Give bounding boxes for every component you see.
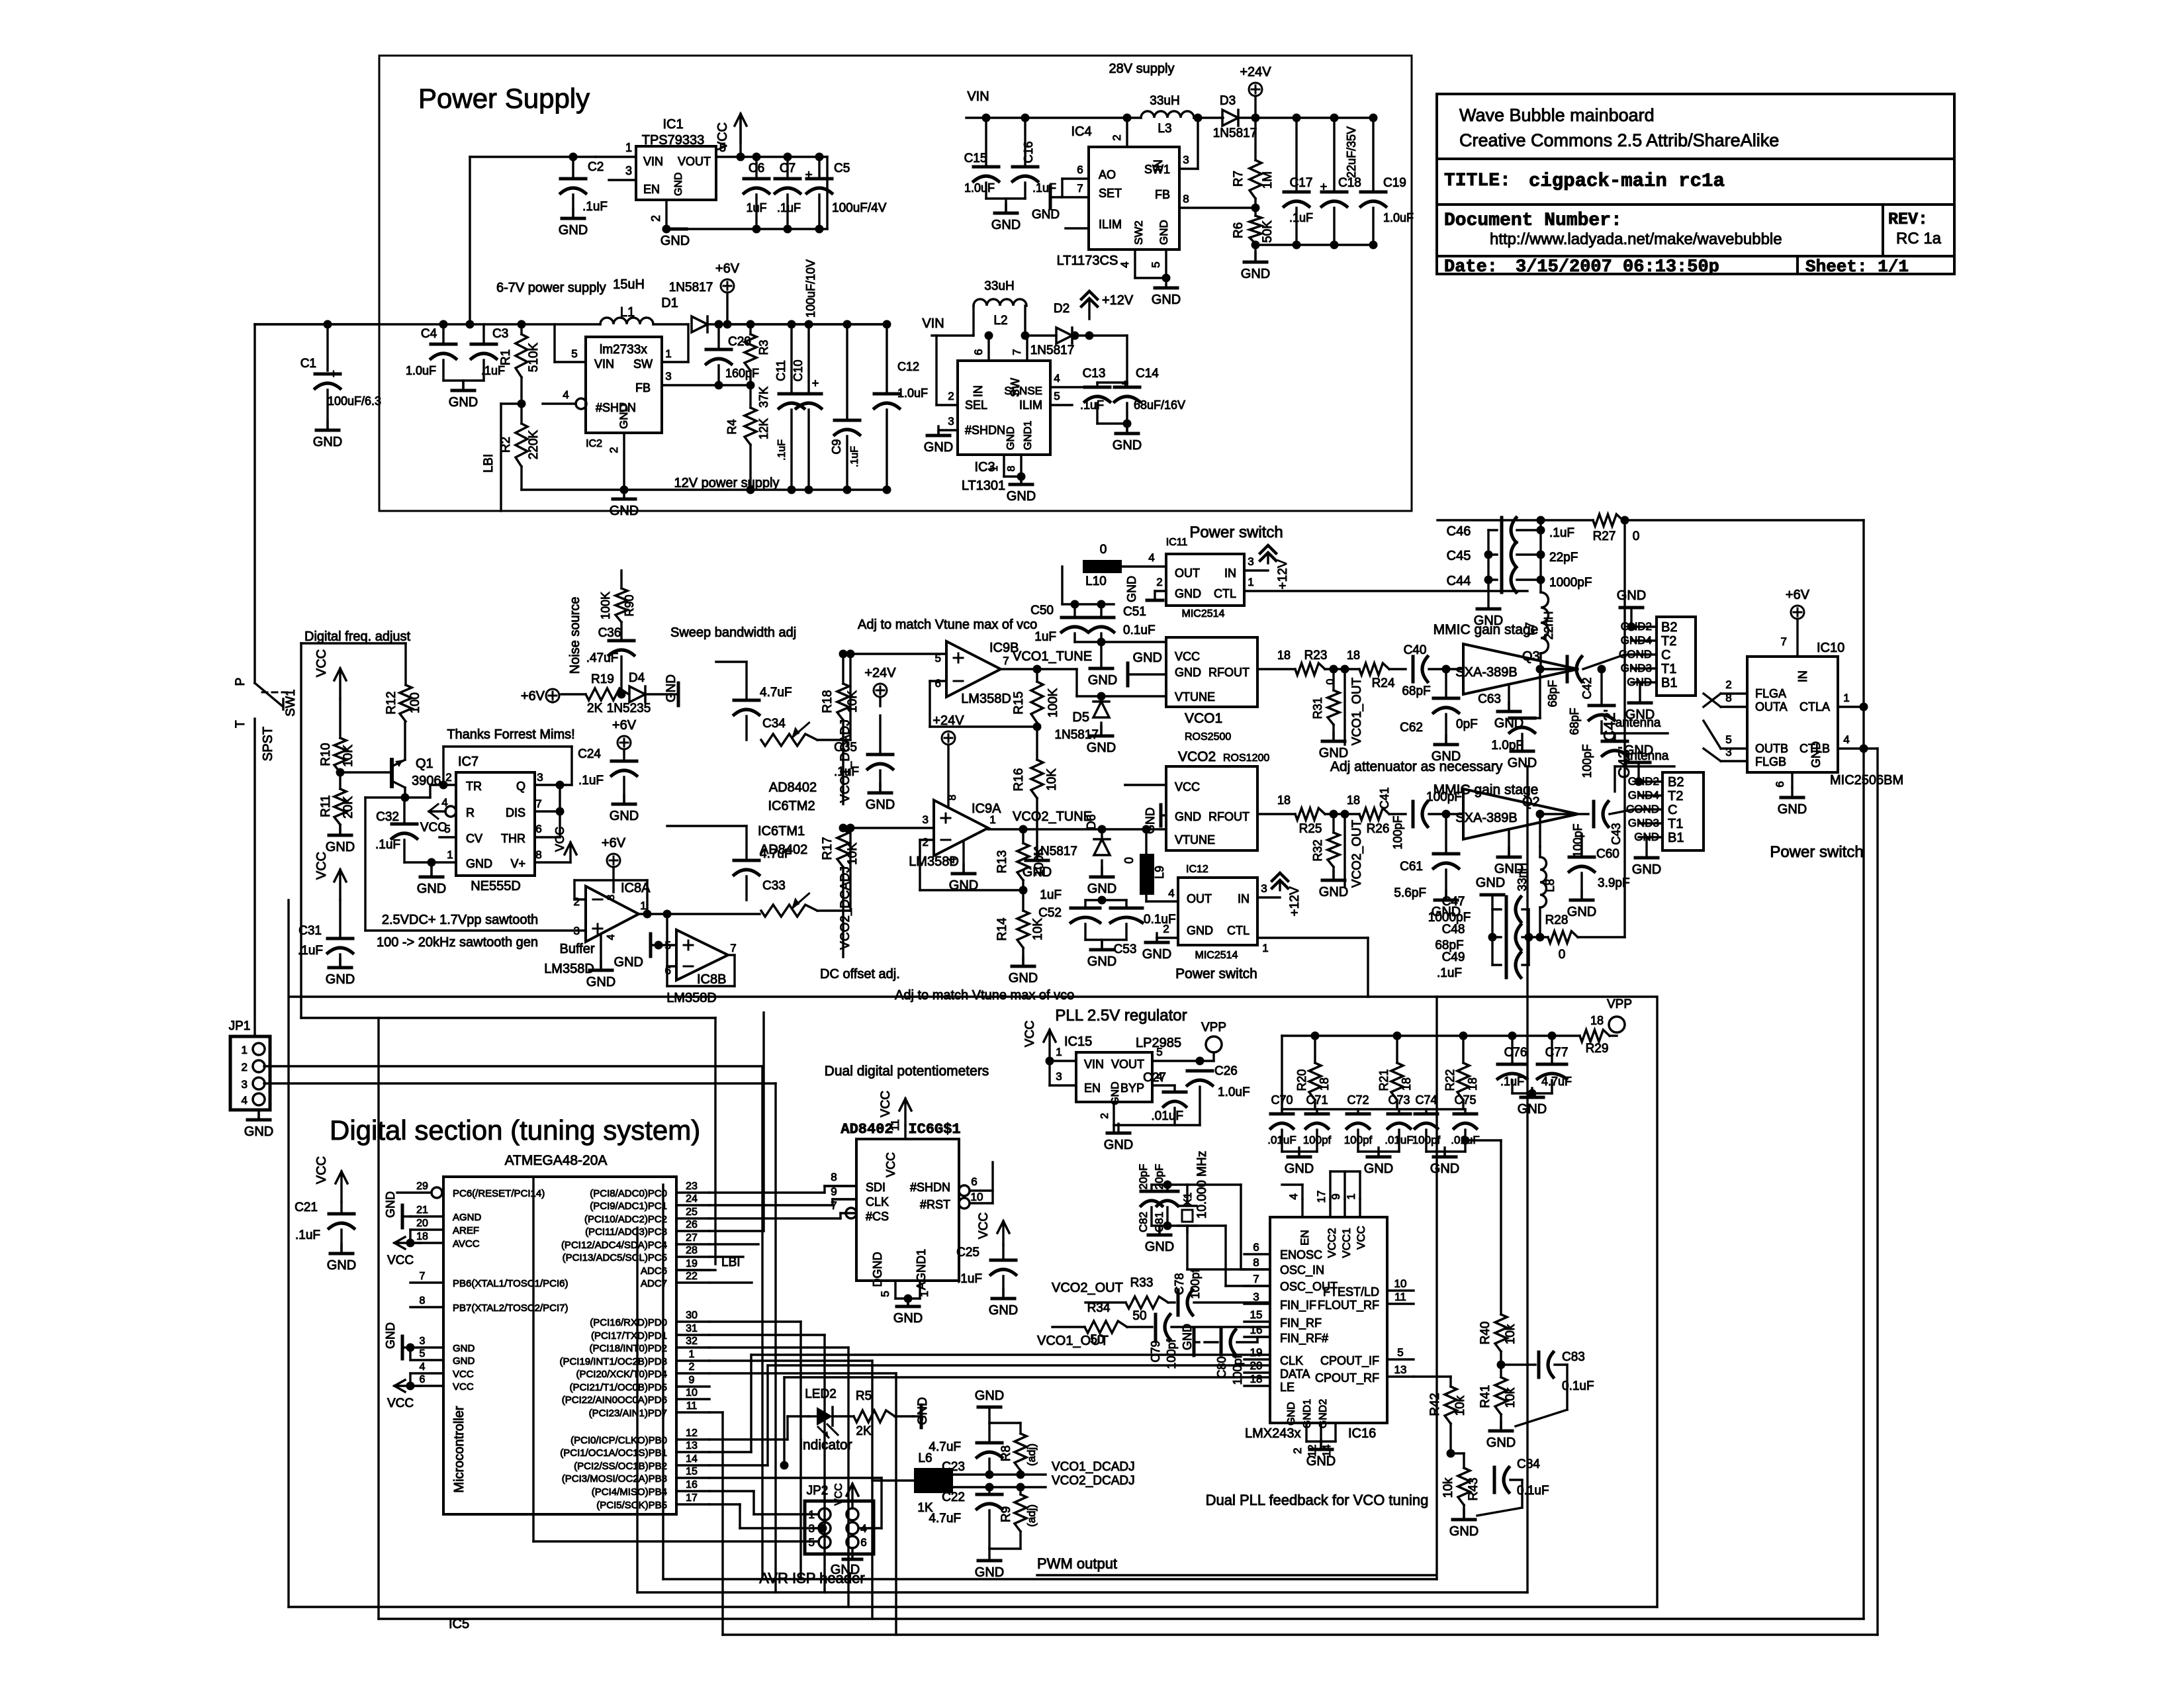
svg-text:GND: GND bbox=[1088, 673, 1117, 688]
svg-text:OUTB: OUTB bbox=[1755, 742, 1788, 755]
svg-text:1N5235: 1N5235 bbox=[607, 702, 651, 715]
svg-text:Microcontroller: Microcontroller bbox=[452, 1406, 467, 1492]
svg-text:2K: 2K bbox=[587, 702, 603, 715]
svg-text:B2: B2 bbox=[1661, 620, 1677, 635]
svg-text:R42: R42 bbox=[1428, 1393, 1442, 1416]
svg-text:5: 5 bbox=[1156, 1046, 1162, 1058]
svg-text:18: 18 bbox=[1277, 794, 1291, 807]
svg-text:4: 4 bbox=[1843, 733, 1849, 746]
svg-text:22: 22 bbox=[686, 1271, 698, 1282]
svg-text:(PCI8/ADC0)PC0: (PCI8/ADC0)PC0 bbox=[590, 1188, 667, 1199]
svg-text:FIN_RF: FIN_RF bbox=[1280, 1316, 1322, 1330]
svg-text:18: 18 bbox=[1400, 1077, 1413, 1091]
svg-text:R90: R90 bbox=[623, 594, 636, 616]
svg-text:IC9A: IC9A bbox=[972, 801, 1001, 816]
svg-text:GND: GND bbox=[1009, 971, 1038, 985]
svg-text:IC1: IC1 bbox=[662, 117, 683, 132]
svg-text:GND: GND bbox=[989, 1303, 1018, 1318]
svg-text:(PCI4/MISO)PB4: (PCI4/MISO)PB4 bbox=[592, 1486, 667, 1498]
svg-text:VCO1_OUT: VCO1_OUT bbox=[1350, 677, 1364, 745]
svg-text:+24V: +24V bbox=[1240, 65, 1271, 79]
svg-text:MIC2514: MIC2514 bbox=[1182, 608, 1225, 619]
svg-text:220K: 220K bbox=[527, 430, 541, 459]
svg-text:C27: C27 bbox=[1143, 1071, 1166, 1085]
svg-text:13: 13 bbox=[686, 1440, 698, 1451]
svg-text:IC6TM2: IC6TM2 bbox=[768, 799, 815, 813]
svg-text:1.0uF: 1.0uF bbox=[897, 387, 928, 400]
svg-text:Thanks Forrest Mims!: Thanks Forrest Mims! bbox=[447, 727, 574, 742]
svg-text:GND: GND bbox=[1778, 802, 1807, 817]
svg-text:GND: GND bbox=[1624, 743, 1653, 758]
svg-text:DC offset adj.: DC offset adj. bbox=[820, 967, 900, 982]
svg-text:2: 2 bbox=[242, 1061, 248, 1074]
svg-text:cigpack-main rc1a: cigpack-main rc1a bbox=[1529, 170, 1725, 192]
svg-text:BYP: BYP bbox=[1120, 1081, 1144, 1095]
svg-text:2: 2 bbox=[608, 447, 620, 453]
svg-text:4.7uF: 4.7uF bbox=[1541, 1075, 1572, 1088]
svg-text:D3: D3 bbox=[1220, 94, 1236, 108]
svg-text:(PCI11/ADC3)PC3: (PCI11/ADC3)PC3 bbox=[585, 1226, 667, 1238]
svg-text:1000pF: 1000pF bbox=[1549, 576, 1592, 590]
svg-text:37K: 37K bbox=[757, 387, 770, 408]
svg-text:R5: R5 bbox=[856, 1389, 872, 1403]
svg-text:GND: GND bbox=[614, 955, 643, 970]
svg-text:8: 8 bbox=[1725, 692, 1731, 704]
svg-text:C35: C35 bbox=[834, 741, 857, 754]
svg-text:SPST: SPST bbox=[261, 727, 275, 761]
svg-text:28: 28 bbox=[686, 1245, 698, 1256]
svg-text:R8: R8 bbox=[999, 1445, 1013, 1461]
svg-text:IC5: IC5 bbox=[449, 1617, 469, 1631]
svg-text:1uF: 1uF bbox=[746, 201, 766, 214]
svg-text:GND: GND bbox=[1007, 489, 1036, 504]
svg-text:6: 6 bbox=[971, 1175, 977, 1188]
svg-text:1: 1 bbox=[1248, 576, 1253, 588]
svg-text:4.7uF: 4.7uF bbox=[929, 1440, 961, 1454]
svg-text:1.0uF: 1.0uF bbox=[964, 181, 995, 195]
svg-text:7: 7 bbox=[1003, 655, 1009, 667]
svg-text:D2: D2 bbox=[1054, 302, 1069, 316]
svg-text:16: 16 bbox=[1250, 1324, 1263, 1336]
svg-text:ROS2500: ROS2500 bbox=[1185, 731, 1231, 743]
svg-text:6: 6 bbox=[1077, 163, 1083, 176]
svg-text:R11: R11 bbox=[319, 795, 333, 817]
svg-text:GND: GND bbox=[1286, 1402, 1297, 1426]
svg-text:C74: C74 bbox=[1415, 1093, 1437, 1107]
svg-text:C34: C34 bbox=[762, 717, 786, 731]
svg-text:SENSE: SENSE bbox=[1004, 385, 1042, 397]
svg-text:C52: C52 bbox=[1038, 906, 1062, 920]
svg-text:+6V: +6V bbox=[602, 836, 626, 850]
svg-text:C78: C78 bbox=[1173, 1273, 1186, 1295]
svg-text:+6V: +6V bbox=[521, 689, 545, 704]
svg-text:1: 1 bbox=[1345, 1193, 1357, 1199]
svg-text:0: 0 bbox=[1633, 529, 1640, 543]
svg-text:0.1uF: 0.1uF bbox=[1144, 913, 1176, 927]
svg-text:VCC: VCC bbox=[1355, 1226, 1367, 1250]
svg-text:+: + bbox=[812, 377, 819, 390]
svg-text:68uF/16V: 68uF/16V bbox=[1134, 398, 1185, 412]
svg-text:C23: C23 bbox=[942, 1460, 965, 1474]
svg-text:18: 18 bbox=[416, 1231, 428, 1242]
svg-text:4: 4 bbox=[242, 1094, 248, 1107]
svg-text:GND: GND bbox=[975, 1389, 1004, 1403]
svg-text:TR: TR bbox=[466, 780, 482, 793]
svg-text:ADC7: ADC7 bbox=[641, 1278, 667, 1289]
svg-text:.1uF: .1uF bbox=[578, 774, 604, 788]
svg-text:PLL 2.5V regulator: PLL 2.5V regulator bbox=[1055, 1007, 1187, 1025]
svg-text:IN: IN bbox=[1796, 670, 1809, 682]
svg-text:GND: GND bbox=[384, 1191, 397, 1218]
svg-text:GND: GND bbox=[1319, 746, 1348, 760]
svg-text:27: 27 bbox=[686, 1232, 698, 1244]
svg-text:R1: R1 bbox=[499, 349, 513, 365]
svg-text:IC16: IC16 bbox=[1348, 1426, 1376, 1441]
svg-text:4: 4 bbox=[1054, 372, 1060, 385]
svg-text:9: 9 bbox=[689, 1375, 695, 1386]
svg-text:(adj): (adj) bbox=[1025, 1443, 1038, 1466]
svg-text:GND: GND bbox=[1567, 905, 1596, 919]
svg-text:2: 2 bbox=[445, 771, 451, 784]
svg-text:3: 3 bbox=[537, 771, 543, 784]
svg-text:(PCI5/SCK)PB5: (PCI5/SCK)PB5 bbox=[596, 1500, 667, 1511]
svg-text:SXA-389B: SXA-389B bbox=[1455, 665, 1517, 680]
svg-text:MIC2514: MIC2514 bbox=[1195, 950, 1238, 961]
svg-text:22uF/35V: 22uF/35V bbox=[1345, 126, 1358, 178]
svg-text:1: 1 bbox=[809, 1508, 815, 1521]
svg-text:D5: D5 bbox=[1072, 710, 1089, 725]
svg-text:+12V: +12V bbox=[1288, 886, 1302, 916]
svg-text:GND: GND bbox=[1158, 220, 1170, 245]
svg-text:GND: GND bbox=[1087, 882, 1116, 896]
svg-text:VCC: VCC bbox=[977, 1212, 991, 1239]
svg-text:GND: GND bbox=[1110, 1081, 1121, 1105]
svg-text:.1uF: .1uF bbox=[776, 439, 788, 461]
svg-text:VCC: VCC bbox=[314, 1156, 329, 1184]
svg-text:LT1301: LT1301 bbox=[962, 479, 1005, 493]
svg-text:RFOUT: RFOUT bbox=[1208, 666, 1250, 679]
svg-text:GND: GND bbox=[1125, 576, 1138, 602]
svg-text:L8: L8 bbox=[1543, 879, 1557, 892]
svg-text:GND: GND bbox=[664, 674, 678, 702]
svg-text:C83: C83 bbox=[1562, 1350, 1585, 1364]
svg-text:160pF: 160pF bbox=[725, 367, 759, 380]
svg-text:GND: GND bbox=[1152, 293, 1181, 307]
svg-text:CTLA: CTLA bbox=[1799, 700, 1830, 713]
svg-text:CLK: CLK bbox=[866, 1195, 889, 1209]
svg-text:4: 4 bbox=[947, 857, 958, 863]
svg-text:Adj to match Vtune max of vco: Adj to match Vtune max of vco bbox=[858, 617, 1037, 632]
svg-text:Q1: Q1 bbox=[416, 756, 433, 771]
svg-text:PB7(XTAL2/TOSC2/PCI7): PB7(XTAL2/TOSC2/PCI7) bbox=[453, 1303, 569, 1314]
svg-text:D6: D6 bbox=[1085, 814, 1098, 829]
svg-text:PB6(XTAL1/TOSC1/PCI6): PB6(XTAL1/TOSC1/PCI6) bbox=[453, 1278, 569, 1289]
svg-text:VCC: VCC bbox=[453, 1369, 474, 1380]
svg-text:23: 23 bbox=[686, 1181, 698, 1192]
svg-text:R7: R7 bbox=[1232, 171, 1246, 187]
svg-text:FLOUT_RF: FLOUT_RF bbox=[1318, 1299, 1379, 1312]
svg-text:R25: R25 bbox=[1299, 822, 1322, 836]
svg-text:+12V: +12V bbox=[1276, 559, 1290, 589]
svg-text:IN: IN bbox=[1238, 892, 1250, 905]
svg-text:R29: R29 bbox=[1586, 1042, 1609, 1056]
svg-text:R41: R41 bbox=[1479, 1385, 1492, 1408]
svg-text:C80: C80 bbox=[1215, 1356, 1228, 1378]
svg-text:C79: C79 bbox=[1149, 1340, 1162, 1362]
svg-text:1: 1 bbox=[242, 1044, 248, 1056]
svg-text:VCC: VCC bbox=[1175, 780, 1200, 794]
svg-text:C31: C31 bbox=[298, 924, 322, 938]
svg-text:T: T bbox=[234, 720, 248, 728]
svg-text:15: 15 bbox=[686, 1466, 698, 1477]
svg-text:AD8402: AD8402 bbox=[841, 1121, 893, 1138]
svg-text:5: 5 bbox=[1054, 390, 1060, 402]
svg-text:(PCI12/ADC4/SDA)PC4: (PCI12/ADC4/SDA)PC4 bbox=[561, 1240, 667, 1251]
svg-text:R19: R19 bbox=[591, 672, 614, 686]
svg-text:L10: L10 bbox=[1085, 574, 1107, 588]
svg-text:(PCI22/AIN0OC0A)PD6: (PCI22/AIN0OC0A)PD6 bbox=[562, 1394, 667, 1406]
svg-text:GND: GND bbox=[1486, 1436, 1516, 1450]
svg-text:GND: GND bbox=[1449, 1524, 1479, 1539]
svg-text:V+: V+ bbox=[510, 857, 525, 870]
svg-text:C62: C62 bbox=[1400, 721, 1423, 735]
svg-text:C53: C53 bbox=[1114, 942, 1137, 956]
svg-text:9: 9 bbox=[1330, 1193, 1342, 1199]
svg-text:GND: GND bbox=[1133, 651, 1162, 665]
svg-text:GND: GND bbox=[1285, 1162, 1314, 1176]
svg-text:25: 25 bbox=[686, 1207, 698, 1218]
svg-text:100pf: 100pf bbox=[1165, 1338, 1178, 1369]
svg-text:20K: 20K bbox=[341, 796, 355, 819]
svg-text:4: 4 bbox=[1287, 1193, 1300, 1199]
svg-text:L7: L7 bbox=[1524, 622, 1537, 635]
svg-text:#CS: #CS bbox=[866, 1210, 889, 1223]
svg-text:R27: R27 bbox=[1593, 529, 1616, 543]
svg-text:L9: L9 bbox=[1153, 866, 1166, 879]
svg-text:Sweep bandwidth adj: Sweep bandwidth adj bbox=[670, 625, 796, 640]
svg-text:Power switch: Power switch bbox=[1770, 843, 1863, 861]
svg-text:18: 18 bbox=[1590, 1014, 1604, 1027]
svg-text:.1uF: .1uF bbox=[582, 200, 608, 214]
svg-text:68pF: 68pF bbox=[1402, 684, 1430, 698]
svg-text:C60: C60 bbox=[1596, 847, 1619, 861]
svg-text:DATA: DATA bbox=[1280, 1367, 1310, 1381]
svg-text:(PCI10/ADC2)PC2: (PCI10/ADC2)PC2 bbox=[584, 1214, 667, 1225]
svg-text:SW1: SW1 bbox=[284, 689, 298, 716]
svg-text:GND: GND bbox=[417, 882, 446, 896]
svg-text:100uF/4V: 100uF/4V bbox=[832, 201, 887, 215]
svg-text:(PCI3/MOSI/OC2A)PB3: (PCI3/MOSI/OC2A)PB3 bbox=[562, 1473, 667, 1485]
svg-text:OUT: OUT bbox=[1187, 892, 1212, 905]
svg-text:10K: 10K bbox=[341, 745, 355, 767]
svg-text:FIN_IF: FIN_IF bbox=[1280, 1299, 1316, 1312]
svg-text:NE555D: NE555D bbox=[471, 879, 521, 893]
svg-text:28V supply: 28V supply bbox=[1109, 62, 1175, 76]
svg-text:AVCC: AVCC bbox=[453, 1238, 480, 1250]
svg-text:R21: R21 bbox=[1377, 1069, 1390, 1091]
svg-text:C6: C6 bbox=[749, 161, 764, 175]
svg-text:T1: T1 bbox=[1668, 817, 1683, 831]
svg-text:C24: C24 bbox=[578, 747, 601, 761]
svg-text:OSC_IN: OSC_IN bbox=[1280, 1263, 1324, 1277]
svg-text:C12: C12 bbox=[897, 360, 919, 373]
svg-text:#SHDN: #SHDN bbox=[965, 424, 1005, 437]
svg-text:11: 11 bbox=[889, 1119, 901, 1131]
svg-text:LED2: LED2 bbox=[805, 1387, 837, 1401]
svg-text:LT1173CS: LT1173CS bbox=[1057, 253, 1118, 268]
svg-text:RC 1a: RC 1a bbox=[1896, 230, 1942, 248]
svg-text:GND: GND bbox=[1104, 1138, 1133, 1152]
svg-text:+24V: +24V bbox=[864, 666, 896, 680]
svg-text:5: 5 bbox=[571, 347, 577, 360]
svg-text:C3: C3 bbox=[492, 327, 508, 341]
svg-text:1.0uF: 1.0uF bbox=[1218, 1085, 1250, 1099]
svg-text:.47uF: .47uF bbox=[586, 651, 619, 665]
svg-text:+6V: +6V bbox=[715, 261, 740, 276]
svg-text:20: 20 bbox=[1250, 1359, 1263, 1372]
svg-text:RFOUT: RFOUT bbox=[1208, 810, 1250, 823]
svg-text:31: 31 bbox=[686, 1323, 698, 1334]
svg-text:R33: R33 bbox=[1130, 1276, 1154, 1290]
svg-text:100K: 100K bbox=[599, 592, 612, 619]
svg-text:VTUNE: VTUNE bbox=[1175, 833, 1215, 846]
svg-text:12K: 12K bbox=[757, 418, 770, 439]
svg-text:C7: C7 bbox=[780, 161, 796, 175]
svg-text:50: 50 bbox=[1132, 1309, 1146, 1323]
svg-text:1: 1 bbox=[918, 1291, 931, 1297]
svg-text:18: 18 bbox=[1250, 1373, 1263, 1385]
svg-text:.01uF: .01uF bbox=[1151, 1109, 1183, 1123]
svg-text:5.6pF: 5.6pF bbox=[1394, 886, 1426, 900]
svg-text:CTL: CTL bbox=[1214, 587, 1236, 600]
svg-text:VCO2: VCO2 bbox=[1178, 749, 1216, 764]
svg-text:C42: C42 bbox=[1580, 677, 1594, 699]
svg-text:T2: T2 bbox=[1661, 634, 1676, 649]
svg-text:1.0uF: 1.0uF bbox=[406, 364, 436, 377]
svg-text:3: 3 bbox=[574, 925, 580, 937]
svg-text:C36: C36 bbox=[598, 626, 621, 640]
svg-text:(PCI13/ADC5/SCL)PC5: (PCI13/ADC5/SCL)PC5 bbox=[563, 1252, 667, 1263]
svg-text:C49: C49 bbox=[1442, 950, 1465, 964]
svg-text:MIC2506BM: MIC2506BM bbox=[1830, 773, 1903, 788]
svg-text:7: 7 bbox=[730, 942, 736, 954]
svg-text:D1: D1 bbox=[661, 296, 678, 310]
svg-text:10k: 10k bbox=[1453, 1395, 1467, 1416]
svg-text:.1uF: .1uF bbox=[957, 1272, 982, 1286]
svg-text:GND: GND bbox=[244, 1124, 273, 1139]
svg-text:GND: GND bbox=[1432, 905, 1461, 919]
svg-text:7: 7 bbox=[1077, 182, 1083, 195]
svg-text:GND: GND bbox=[453, 1355, 475, 1367]
svg-text:10k: 10k bbox=[1504, 1324, 1518, 1344]
svg-text:.1uF: .1uF bbox=[849, 446, 860, 467]
svg-text:C51: C51 bbox=[1123, 605, 1146, 619]
svg-text:R22: R22 bbox=[1443, 1069, 1457, 1091]
svg-text:7: 7 bbox=[831, 1199, 837, 1212]
svg-text:R17: R17 bbox=[821, 837, 835, 860]
svg-text:5: 5 bbox=[1397, 1346, 1403, 1359]
svg-text:GND: GND bbox=[916, 1397, 930, 1425]
svg-text:.1uF: .1uF bbox=[298, 944, 323, 958]
svg-text:Dual digital potentiometers: Dual digital potentiometers bbox=[825, 1064, 989, 1079]
svg-text:GND: GND bbox=[1508, 756, 1537, 770]
svg-text:20: 20 bbox=[416, 1218, 428, 1229]
svg-text:3/15/2007 06:13:50p: 3/15/2007 06:13:50p bbox=[1516, 257, 1719, 277]
svg-text:R14: R14 bbox=[995, 917, 1009, 940]
svg-text:6: 6 bbox=[1774, 781, 1786, 787]
svg-text:GND3: GND3 bbox=[1628, 817, 1659, 829]
svg-text:PWM output: PWM output bbox=[1037, 1555, 1117, 1572]
svg-text:GND: GND bbox=[1032, 208, 1060, 222]
svg-text:L2: L2 bbox=[993, 314, 1007, 328]
svg-text:SEL: SEL bbox=[965, 398, 987, 412]
svg-text:R13: R13 bbox=[995, 850, 1009, 874]
svg-text:GND: GND bbox=[384, 1322, 397, 1349]
svg-text:VCO2_DCADJ: VCO2_DCADJ bbox=[839, 866, 852, 950]
svg-text:100pF: 100pF bbox=[1571, 823, 1584, 857]
svg-text:ILIM: ILIM bbox=[1099, 218, 1122, 231]
svg-text:GND: GND bbox=[1175, 587, 1201, 600]
svg-text:COND: COND bbox=[1626, 803, 1659, 815]
svg-text:R32: R32 bbox=[1311, 839, 1324, 861]
svg-text:GND: GND bbox=[660, 234, 690, 248]
svg-text:B2: B2 bbox=[1668, 775, 1684, 790]
svg-text:C61: C61 bbox=[1400, 860, 1423, 874]
svg-text:8: 8 bbox=[831, 1171, 837, 1183]
svg-text:(PCI18/INT0)PD2: (PCI18/INT0)PD2 bbox=[589, 1343, 667, 1354]
svg-text:Document Number:: Document Number: bbox=[1444, 210, 1622, 231]
svg-text:EN: EN bbox=[643, 183, 660, 196]
svg-text:IC10: IC10 bbox=[1817, 641, 1844, 655]
svg-text:R12: R12 bbox=[385, 692, 398, 715]
svg-text:1: 1 bbox=[447, 848, 453, 861]
svg-text:JP1: JP1 bbox=[229, 1019, 251, 1033]
svg-text:LM358D: LM358D bbox=[666, 991, 717, 1005]
svg-text:C5: C5 bbox=[834, 161, 850, 175]
svg-text:VCC: VCC bbox=[1175, 650, 1200, 663]
svg-text:SET: SET bbox=[1099, 187, 1122, 200]
svg-text:GND: GND bbox=[1494, 862, 1524, 876]
svg-text:L3: L3 bbox=[1158, 122, 1171, 136]
svg-text:3.9pF: 3.9pF bbox=[1598, 876, 1630, 890]
svg-text:.1uF: .1uF bbox=[1032, 181, 1056, 195]
svg-text:GND: GND bbox=[1809, 741, 1823, 768]
svg-text:IC4: IC4 bbox=[1071, 124, 1091, 139]
svg-text:24: 24 bbox=[686, 1193, 698, 1205]
svg-text:1: 1 bbox=[1843, 692, 1849, 704]
svg-text:C45: C45 bbox=[1447, 549, 1471, 563]
svg-text:Adj attenuator as necessary: Adj attenuator as necessary bbox=[1330, 759, 1503, 774]
svg-text:.1uF: .1uF bbox=[1289, 211, 1313, 224]
svg-text:GND: GND bbox=[313, 435, 342, 449]
svg-text:10k: 10k bbox=[1441, 1477, 1455, 1498]
svg-text:DIS: DIS bbox=[506, 806, 525, 819]
svg-text:GND: GND bbox=[1625, 708, 1655, 722]
svg-text:20pF: 20pF bbox=[1137, 1164, 1150, 1190]
svg-text:VOUT: VOUT bbox=[1111, 1058, 1144, 1071]
svg-text:C: C bbox=[1661, 648, 1670, 663]
svg-text:22pF: 22pF bbox=[1549, 551, 1578, 565]
svg-text:15: 15 bbox=[1250, 1308, 1263, 1321]
svg-text:4: 4 bbox=[606, 934, 617, 940]
svg-text:8: 8 bbox=[1253, 1256, 1259, 1269]
svg-text:VCO1: VCO1 bbox=[1185, 711, 1222, 726]
svg-text:.1uF: .1uF bbox=[1437, 966, 1462, 980]
svg-text:+: + bbox=[1320, 180, 1328, 193]
svg-text:R3: R3 bbox=[757, 340, 770, 355]
svg-text:GND: GND bbox=[975, 1565, 1004, 1580]
svg-text:EN: EN bbox=[1298, 1230, 1311, 1246]
